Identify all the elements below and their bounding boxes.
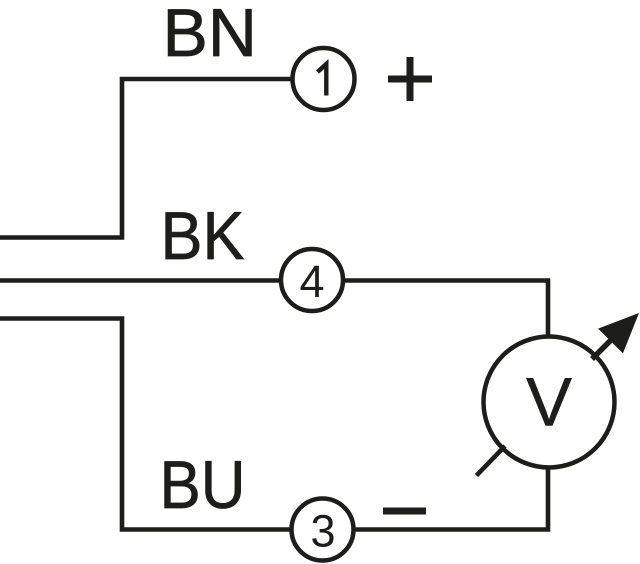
svg-text:4: 4: [299, 256, 324, 307]
svg-text:BK: BK: [161, 198, 245, 274]
svg-text:BU: BU: [160, 447, 246, 523]
svg-text:V: V: [526, 364, 572, 441]
svg-text:3: 3: [310, 506, 335, 557]
svg-text:BN: BN: [163, 0, 257, 71]
